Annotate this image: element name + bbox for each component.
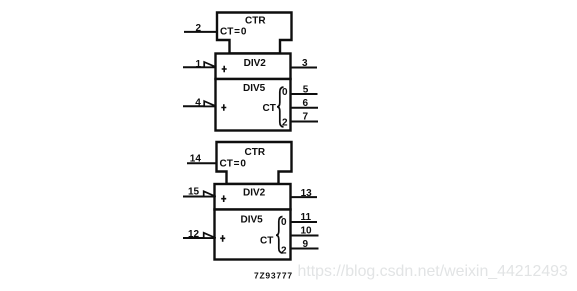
counter B DIV5 element box — [215, 210, 291, 260]
svg-text:0: 0 — [281, 217, 287, 228]
counter A DIV2 element box — [216, 54, 291, 80]
brace grouping CT outputs (counter A) — [277, 87, 284, 127]
svg-text:CT: CT — [263, 103, 276, 114]
counter B common control block CTR U1b — [217, 142, 292, 184]
svg-text:7Z93777: 7Z93777 — [254, 271, 293, 281]
svg-text:12: 12 — [188, 229, 200, 240]
svg-text:CT: CT — [260, 235, 273, 246]
svg-text:0: 0 — [282, 87, 288, 98]
pin 12 wire (2CLKB input) — [183, 237, 215, 239]
pin 6 wire (1QC output) — [291, 107, 319, 109]
svg-text:DIV5: DIV5 — [243, 83, 266, 94]
brace grouping CT outputs (counter B) — [276, 217, 283, 254]
svg-text:DIV2: DIV2 — [244, 58, 267, 69]
svg-text:13: 13 — [301, 188, 313, 199]
svg-text:CTR: CTR — [245, 147, 266, 158]
pin 4 wire (1CLKB input) — [183, 105, 216, 107]
pin 1 wire (1CLKA input) — [183, 66, 216, 68]
pin 11 wire (2QB output) — [291, 221, 318, 223]
svg-text:1: 1 — [196, 59, 202, 70]
pin 5 wire (1QB output) — [291, 93, 318, 95]
svg-text:CT = 0: CT = 0 — [220, 27, 247, 38]
svg-text:9: 9 — [303, 239, 309, 250]
pin 3 wire (1QA output) — [291, 67, 318, 69]
pin 7 wire (1QD output) — [291, 121, 319, 123]
pin 2 wire (1CLR input) — [184, 31, 217, 33]
pin 13 wire (2QA output) — [291, 196, 318, 198]
svg-text:2: 2 — [281, 246, 287, 257]
pin 1 edge wedge indicator — [204, 62, 216, 67]
plus sign (counter B DIV5 input) — [220, 235, 225, 242]
pin 10 wire (2QC output) — [291, 235, 319, 237]
svg-text:4: 4 — [195, 98, 201, 109]
svg-text:DIV2: DIV2 — [243, 187, 266, 198]
svg-text:6: 6 — [303, 98, 309, 109]
pin 4 edge wedge indicator — [204, 101, 216, 106]
plus sign (counter B DIV2 input) — [221, 195, 226, 202]
counter A DIV5 element box — [216, 79, 291, 131]
svg-text:DIV5: DIV5 — [241, 214, 264, 225]
svg-text:CT = 0: CT = 0 — [220, 159, 247, 170]
pin 14 wire (2CLR input) — [187, 162, 217, 164]
svg-text:11: 11 — [301, 212, 312, 223]
svg-text:https://blog.csdn.net/weixin_4: https://blog.csdn.net/weixin_44212493 — [298, 263, 568, 280]
counter B DIV2 element box — [215, 184, 291, 210]
svg-text:3: 3 — [302, 58, 308, 69]
svg-text:14: 14 — [190, 154, 202, 165]
pin 12 edge wedge indicator — [204, 233, 216, 238]
svg-text:2: 2 — [282, 117, 288, 128]
counter A common control block CTR U1a — [217, 13, 292, 54]
svg-text:5: 5 — [303, 85, 309, 96]
svg-text:7: 7 — [303, 112, 309, 123]
pin 15 edge wedge indicator — [204, 191, 216, 196]
svg-text:10: 10 — [301, 226, 313, 237]
pin 9 wire (2QD output) — [291, 248, 319, 250]
plus sign (counter A DIV5 input) — [221, 104, 226, 111]
pin 15 wire (2CLKA input) — [183, 196, 215, 198]
svg-text:CTR: CTR — [245, 16, 266, 27]
plus sign (counter A DIV2 input) — [222, 66, 227, 73]
svg-text:15: 15 — [188, 187, 200, 198]
svg-text:2: 2 — [196, 23, 202, 34]
